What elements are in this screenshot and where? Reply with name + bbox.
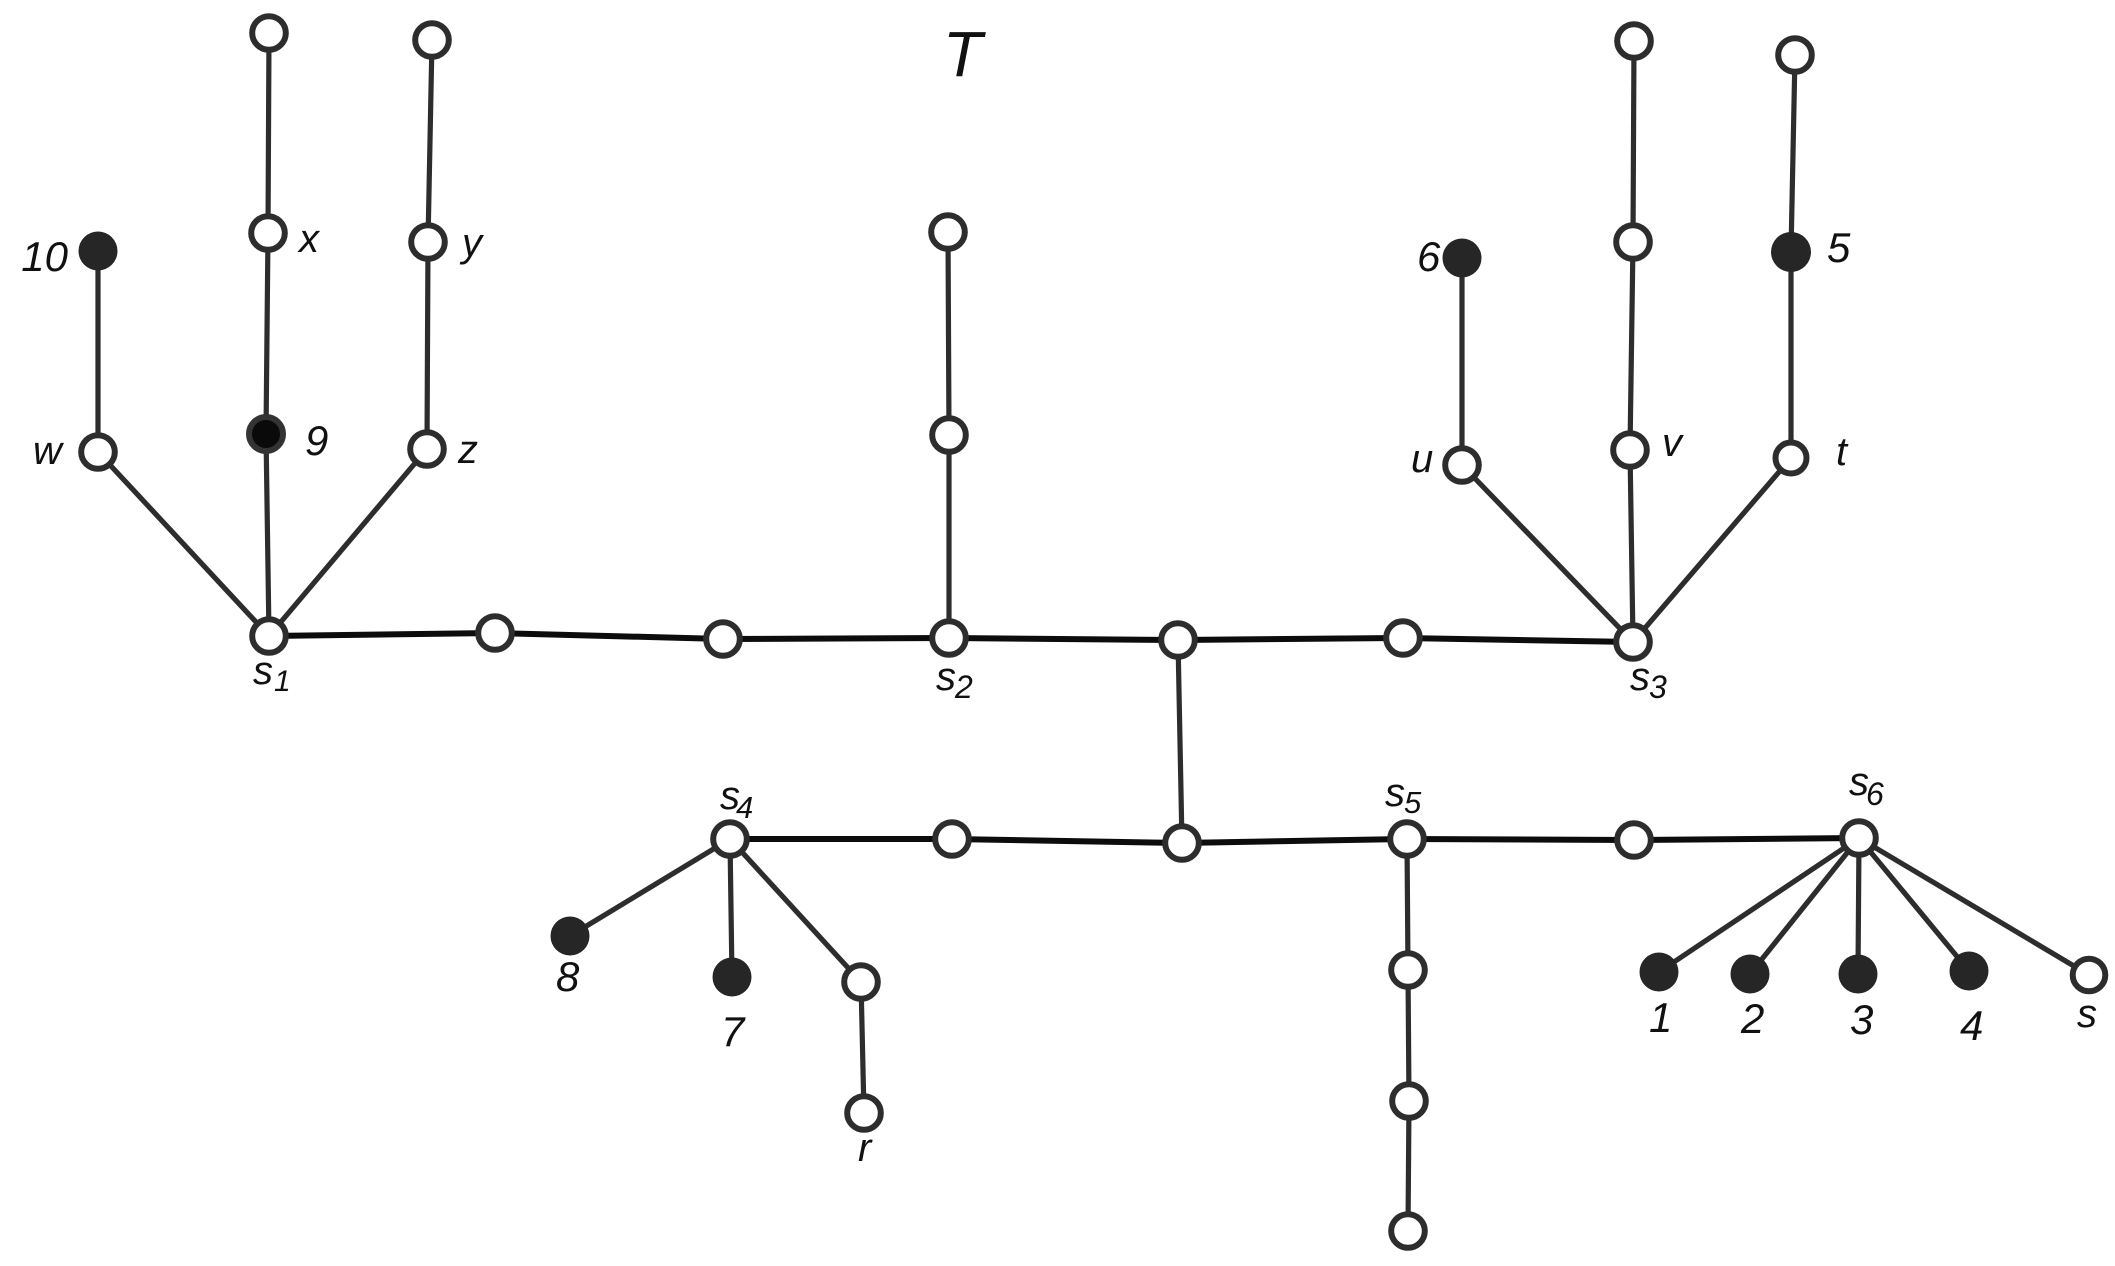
wire 5-t <box>1788 252 1793 458</box>
svg-text:4: 4 <box>1960 1002 1983 1049</box>
node n5 <box>1617 823 1651 857</box>
node s5 <box>1390 822 1424 856</box>
wire s6-1 <box>1659 838 1859 972</box>
wire s6-4 <box>1859 838 1969 971</box>
node 7 (filled) <box>713 958 752 997</box>
node s3 <box>1616 625 1650 659</box>
svg-text:y: y <box>459 221 485 265</box>
node s1 <box>252 619 286 653</box>
svg-text:s: s <box>936 655 956 699</box>
svg-text:s: s <box>253 649 273 693</box>
node 8 (filled) <box>551 917 590 956</box>
wire spine J-n3 <box>1178 638 1403 640</box>
svg-text:2: 2 <box>954 669 973 705</box>
node w <box>81 435 115 469</box>
wire s4-rp <box>730 839 861 982</box>
svg-text:1: 1 <box>1649 994 1672 1041</box>
wire s5-s5a <box>1407 839 1408 970</box>
node 10 (filled) <box>79 232 118 271</box>
wire topx-x <box>268 33 269 233</box>
wire w-s1 <box>98 452 269 636</box>
wire spine n3-s3 <box>1403 638 1633 642</box>
node s5c <box>1391 1214 1425 1248</box>
node 9 (filled) <box>249 417 283 451</box>
wire spine s5-n5 <box>1407 839 1634 840</box>
wire s5b-s5c <box>1408 1101 1409 1231</box>
wire spine n5-s6 <box>1634 838 1859 840</box>
wire y-z <box>427 242 428 449</box>
node junction J <box>1161 623 1195 657</box>
wire s2a-s2b <box>948 232 949 435</box>
wire x-9 <box>266 233 268 434</box>
wire spine s4-n4 <box>730 836 952 842</box>
node s5b <box>1392 1084 1426 1118</box>
wire u-s3 <box>1462 465 1633 642</box>
wire spine s2-J <box>949 638 1178 640</box>
node 2 (filled) <box>1731 955 1770 994</box>
wire spine s1-n1 <box>269 633 495 636</box>
svg-text:1: 1 <box>274 665 291 698</box>
node n4 <box>935 822 969 856</box>
node z <box>410 432 444 466</box>
wire s6-2 <box>1750 838 1859 974</box>
wire s5a-s5b <box>1408 970 1409 1101</box>
node rp <box>844 965 878 999</box>
svg-text:w: w <box>33 429 65 473</box>
wire spine n2-s2 <box>723 638 949 639</box>
node n3 <box>1386 621 1420 655</box>
svg-text:2: 2 <box>1740 995 1764 1042</box>
wire s4-8 <box>570 839 730 936</box>
node u <box>1445 448 1479 482</box>
node 3 (filled) <box>1839 955 1878 994</box>
wire z-s1 <box>269 449 427 636</box>
wire rp-r <box>861 982 864 1113</box>
node y <box>411 225 445 259</box>
wire ttop-5 <box>1791 55 1795 252</box>
wire s6-s <box>1859 838 2089 975</box>
node v <box>1613 433 1647 467</box>
svg-text:6: 6 <box>1866 776 1884 812</box>
wire 10-w <box>95 251 100 452</box>
node vt2 <box>1617 24 1651 58</box>
svg-text:u: u <box>1411 437 1433 481</box>
wire v-s3 <box>1630 450 1633 642</box>
node 1 (filled) <box>1640 953 1679 992</box>
wire vt2-vt1 <box>1633 41 1634 242</box>
wire s6-3 <box>1858 838 1859 974</box>
node s5a <box>1391 953 1425 987</box>
svg-text:4: 4 <box>736 790 753 825</box>
wire t-s3 <box>1633 458 1791 642</box>
node junction J2 <box>1165 826 1199 860</box>
node s2 <box>932 621 966 655</box>
svg-text:3: 3 <box>1649 669 1667 705</box>
svg-text:9: 9 <box>305 417 328 464</box>
wire 9-s1 <box>266 434 269 636</box>
wire spine J2-s5 <box>1182 839 1407 843</box>
node n1 <box>478 616 512 650</box>
node s <box>2073 959 2106 992</box>
node top of y chain <box>415 23 449 57</box>
node 5 (filled) <box>1771 232 1811 272</box>
node s4 <box>713 822 747 856</box>
svg-text:t: t <box>1836 430 1849 474</box>
node x <box>251 216 285 250</box>
svg-text:s: s <box>1630 655 1650 699</box>
svg-text:x: x <box>297 217 321 261</box>
wire s4-7 <box>730 839 732 977</box>
node s2a <box>932 418 966 452</box>
svg-text:v: v <box>1662 421 1684 465</box>
svg-text:s: s <box>2077 992 2097 1036</box>
svg-text:6: 6 <box>1417 233 1441 280</box>
node s6 <box>1842 821 1876 855</box>
wire topy-y <box>428 40 432 242</box>
node top of x chain <box>252 16 286 50</box>
svg-text:7: 7 <box>721 1008 746 1055</box>
wire 6-u <box>1459 258 1464 465</box>
svg-text:5: 5 <box>1827 224 1851 271</box>
wire spine n4-J2 <box>952 839 1182 843</box>
svg-text:s: s <box>1385 771 1405 815</box>
node 6 (filled) <box>1443 239 1482 278</box>
node r <box>847 1096 881 1130</box>
svg-text:T: T <box>943 18 986 90</box>
svg-text:8: 8 <box>556 953 580 1000</box>
node n2 <box>706 622 740 656</box>
wire spine n1-n2 <box>495 633 723 639</box>
svg-text:5: 5 <box>1404 785 1422 820</box>
wire s2-s2a <box>946 435 951 638</box>
node t <box>1776 443 1807 474</box>
svg-text:10: 10 <box>21 233 68 280</box>
svg-text:z: z <box>457 428 478 472</box>
svg-text:r: r <box>858 1126 873 1170</box>
wire vt1-v <box>1630 242 1633 450</box>
wire J-J2 vertical <box>1178 640 1182 843</box>
node s2b <box>931 215 965 249</box>
node vt1 <box>1616 225 1650 259</box>
node 4 (filled) <box>1950 952 1989 991</box>
node top of t chain <box>1778 38 1812 72</box>
svg-text:3: 3 <box>1850 996 1873 1043</box>
